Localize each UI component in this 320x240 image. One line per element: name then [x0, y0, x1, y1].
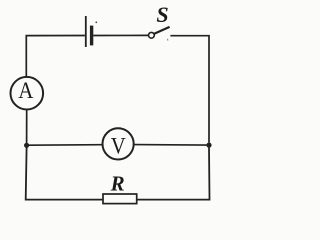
voltmeter V	[103, 128, 134, 159]
wire: left node to voltmeter	[29, 144, 102, 147]
wire: left node down + bottom wire to resistor	[26, 148, 103, 200]
ammeter A	[11, 77, 44, 110]
node: left junction	[24, 143, 29, 148]
resistor R (box)	[103, 194, 137, 204]
ink speck (scan noise) below switch lever	[166, 39, 169, 41]
wire: right node down + bottom wire to resistor	[137, 148, 210, 200]
ink speck (scan noise) near battery	[95, 21, 97, 23]
wire: switch to top-right corner + right vertical down to node	[170, 36, 209, 143]
wire: ammeter to left node	[26, 110, 28, 143]
battery B1	[86, 16, 92, 47]
switch S (pivot circle + lever)	[149, 27, 170, 38]
wire: battery to switch	[93, 34, 148, 36]
svg-text:R: R	[110, 172, 125, 196]
wire: top-left corner (top wire to battery + left vertical to ammeter)	[26, 36, 85, 78]
wire: voltmeter to right node	[134, 144, 207, 147]
svg-text:A: A	[18, 78, 34, 103]
svg-text:V: V	[111, 133, 126, 158]
svg-text:S: S	[156, 2, 168, 27]
node: right junction	[206, 143, 211, 148]
